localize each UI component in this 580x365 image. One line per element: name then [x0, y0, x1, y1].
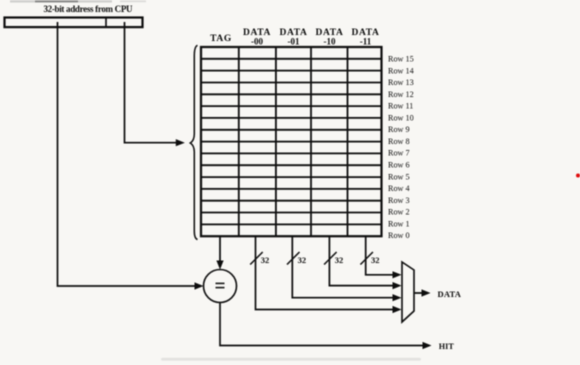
svg-text:Row 12: Row 12: [388, 90, 414, 99]
svg-text:Row 8: Row 8: [388, 137, 410, 146]
wire index-field down to row select: [125, 22, 178, 143]
svg-text:Row 13: Row 13: [388, 78, 414, 87]
wire mux output: [414, 292, 427, 294]
multiplexer: [402, 262, 414, 322]
svg-text:Row 6: Row 6: [388, 161, 410, 170]
address register box: [5, 18, 143, 28]
slash bus mark 32 (data-10): [324, 252, 337, 265]
svg-text:32: 32: [371, 255, 380, 265]
wire data-10 to mux: [329, 236, 398, 286]
wire data-00 to mux: [256, 236, 399, 310]
slash bus mark 32 (data-11): [360, 252, 373, 265]
svg-text:32: 32: [261, 255, 270, 265]
svg-text:Row 10: Row 10: [388, 113, 414, 122]
svg-text:Row 7: Row 7: [388, 149, 410, 158]
svg-text:-10: -10: [324, 37, 336, 47]
comparator circle: [204, 270, 237, 303]
arrowhead into brace: [176, 139, 185, 146]
equals sign: [216, 282, 225, 284]
wire tag-field down to comparator: [58, 22, 201, 286]
arrowhead DATA: [422, 289, 431, 296]
svg-text:Row 14: Row 14: [388, 66, 414, 75]
wire data-11 to mux: [366, 236, 398, 275]
wire data-01 to mux: [292, 236, 398, 298]
svg-text:Row 0: Row 0: [388, 231, 410, 240]
svg-text:Row 2: Row 2: [388, 208, 410, 217]
red dot artifact: [576, 174, 580, 178]
svg-text:TAG: TAG: [210, 34, 232, 44]
svg-text:Row 9: Row 9: [388, 125, 410, 134]
svg-text:-00: -00: [251, 37, 263, 47]
scan artifact streak top: [10, 0, 112, 2]
address box field divider: [105, 17, 107, 29]
svg-text:32-bit address from CPU: 32-bit address from CPU: [44, 4, 134, 14]
arrowhead HIT: [423, 342, 432, 349]
svg-text:Row 1: Row 1: [388, 219, 410, 228]
scan blur streak bottom: [161, 358, 421, 361]
cache table grid: [201, 47, 382, 236]
svg-text:Row 5: Row 5: [388, 172, 410, 181]
svg-text:DATA: DATA: [438, 289, 462, 299]
svg-text:HIT: HIT: [439, 342, 455, 351]
wire tag column to comparator: [219, 236, 221, 266]
svg-text:32: 32: [335, 255, 344, 265]
svg-text:Row 11: Row 11: [388, 102, 413, 111]
svg-text:32: 32: [298, 255, 307, 265]
row labels: [388, 55, 414, 241]
slash bus mark 32 (data-01): [287, 252, 300, 265]
arrowhead into comparator left: [195, 282, 204, 289]
svg-text:-11: -11: [360, 37, 372, 47]
svg-text:Row 4: Row 4: [388, 184, 410, 193]
svg-text:-01: -01: [288, 37, 300, 47]
brace row-select: [190, 45, 197, 239]
wire comparator to HIT: [220, 303, 428, 346]
svg-text:Row 3: Row 3: [388, 196, 410, 205]
arrowhead into comparator top: [216, 261, 223, 270]
svg-text:Row 15: Row 15: [388, 55, 414, 64]
slash bus mark 32 (data-00): [250, 252, 263, 265]
